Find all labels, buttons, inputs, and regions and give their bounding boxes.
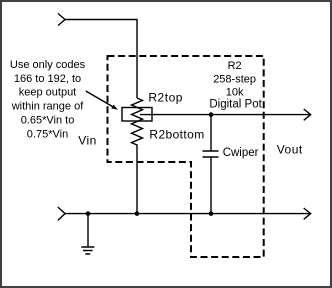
svg-text:R2: R2 [228, 60, 242, 72]
svg-text:Digital Pot: Digital Pot [209, 98, 262, 110]
svg-text:keep output: keep output [19, 87, 77, 99]
svg-text:0.75*Vin: 0.75*Vin [27, 128, 68, 140]
svg-text:258-step: 258-step [213, 74, 256, 86]
svg-text:Vin: Vin [78, 133, 97, 147]
svg-text:Use only codes: Use only codes [10, 59, 86, 71]
svg-text:166 to 192, to: 166 to 192, to [14, 73, 81, 85]
svg-text:R2bottom: R2bottom [149, 128, 204, 142]
svg-text:R2top: R2top [148, 90, 183, 104]
svg-text:within range of: within range of [11, 101, 84, 113]
svg-text:Vout: Vout [277, 142, 303, 156]
svg-text:0.65*Vin to: 0.65*Vin to [21, 115, 75, 127]
svg-text:10k: 10k [226, 87, 244, 99]
svg-text:Cwiper: Cwiper [223, 147, 259, 159]
